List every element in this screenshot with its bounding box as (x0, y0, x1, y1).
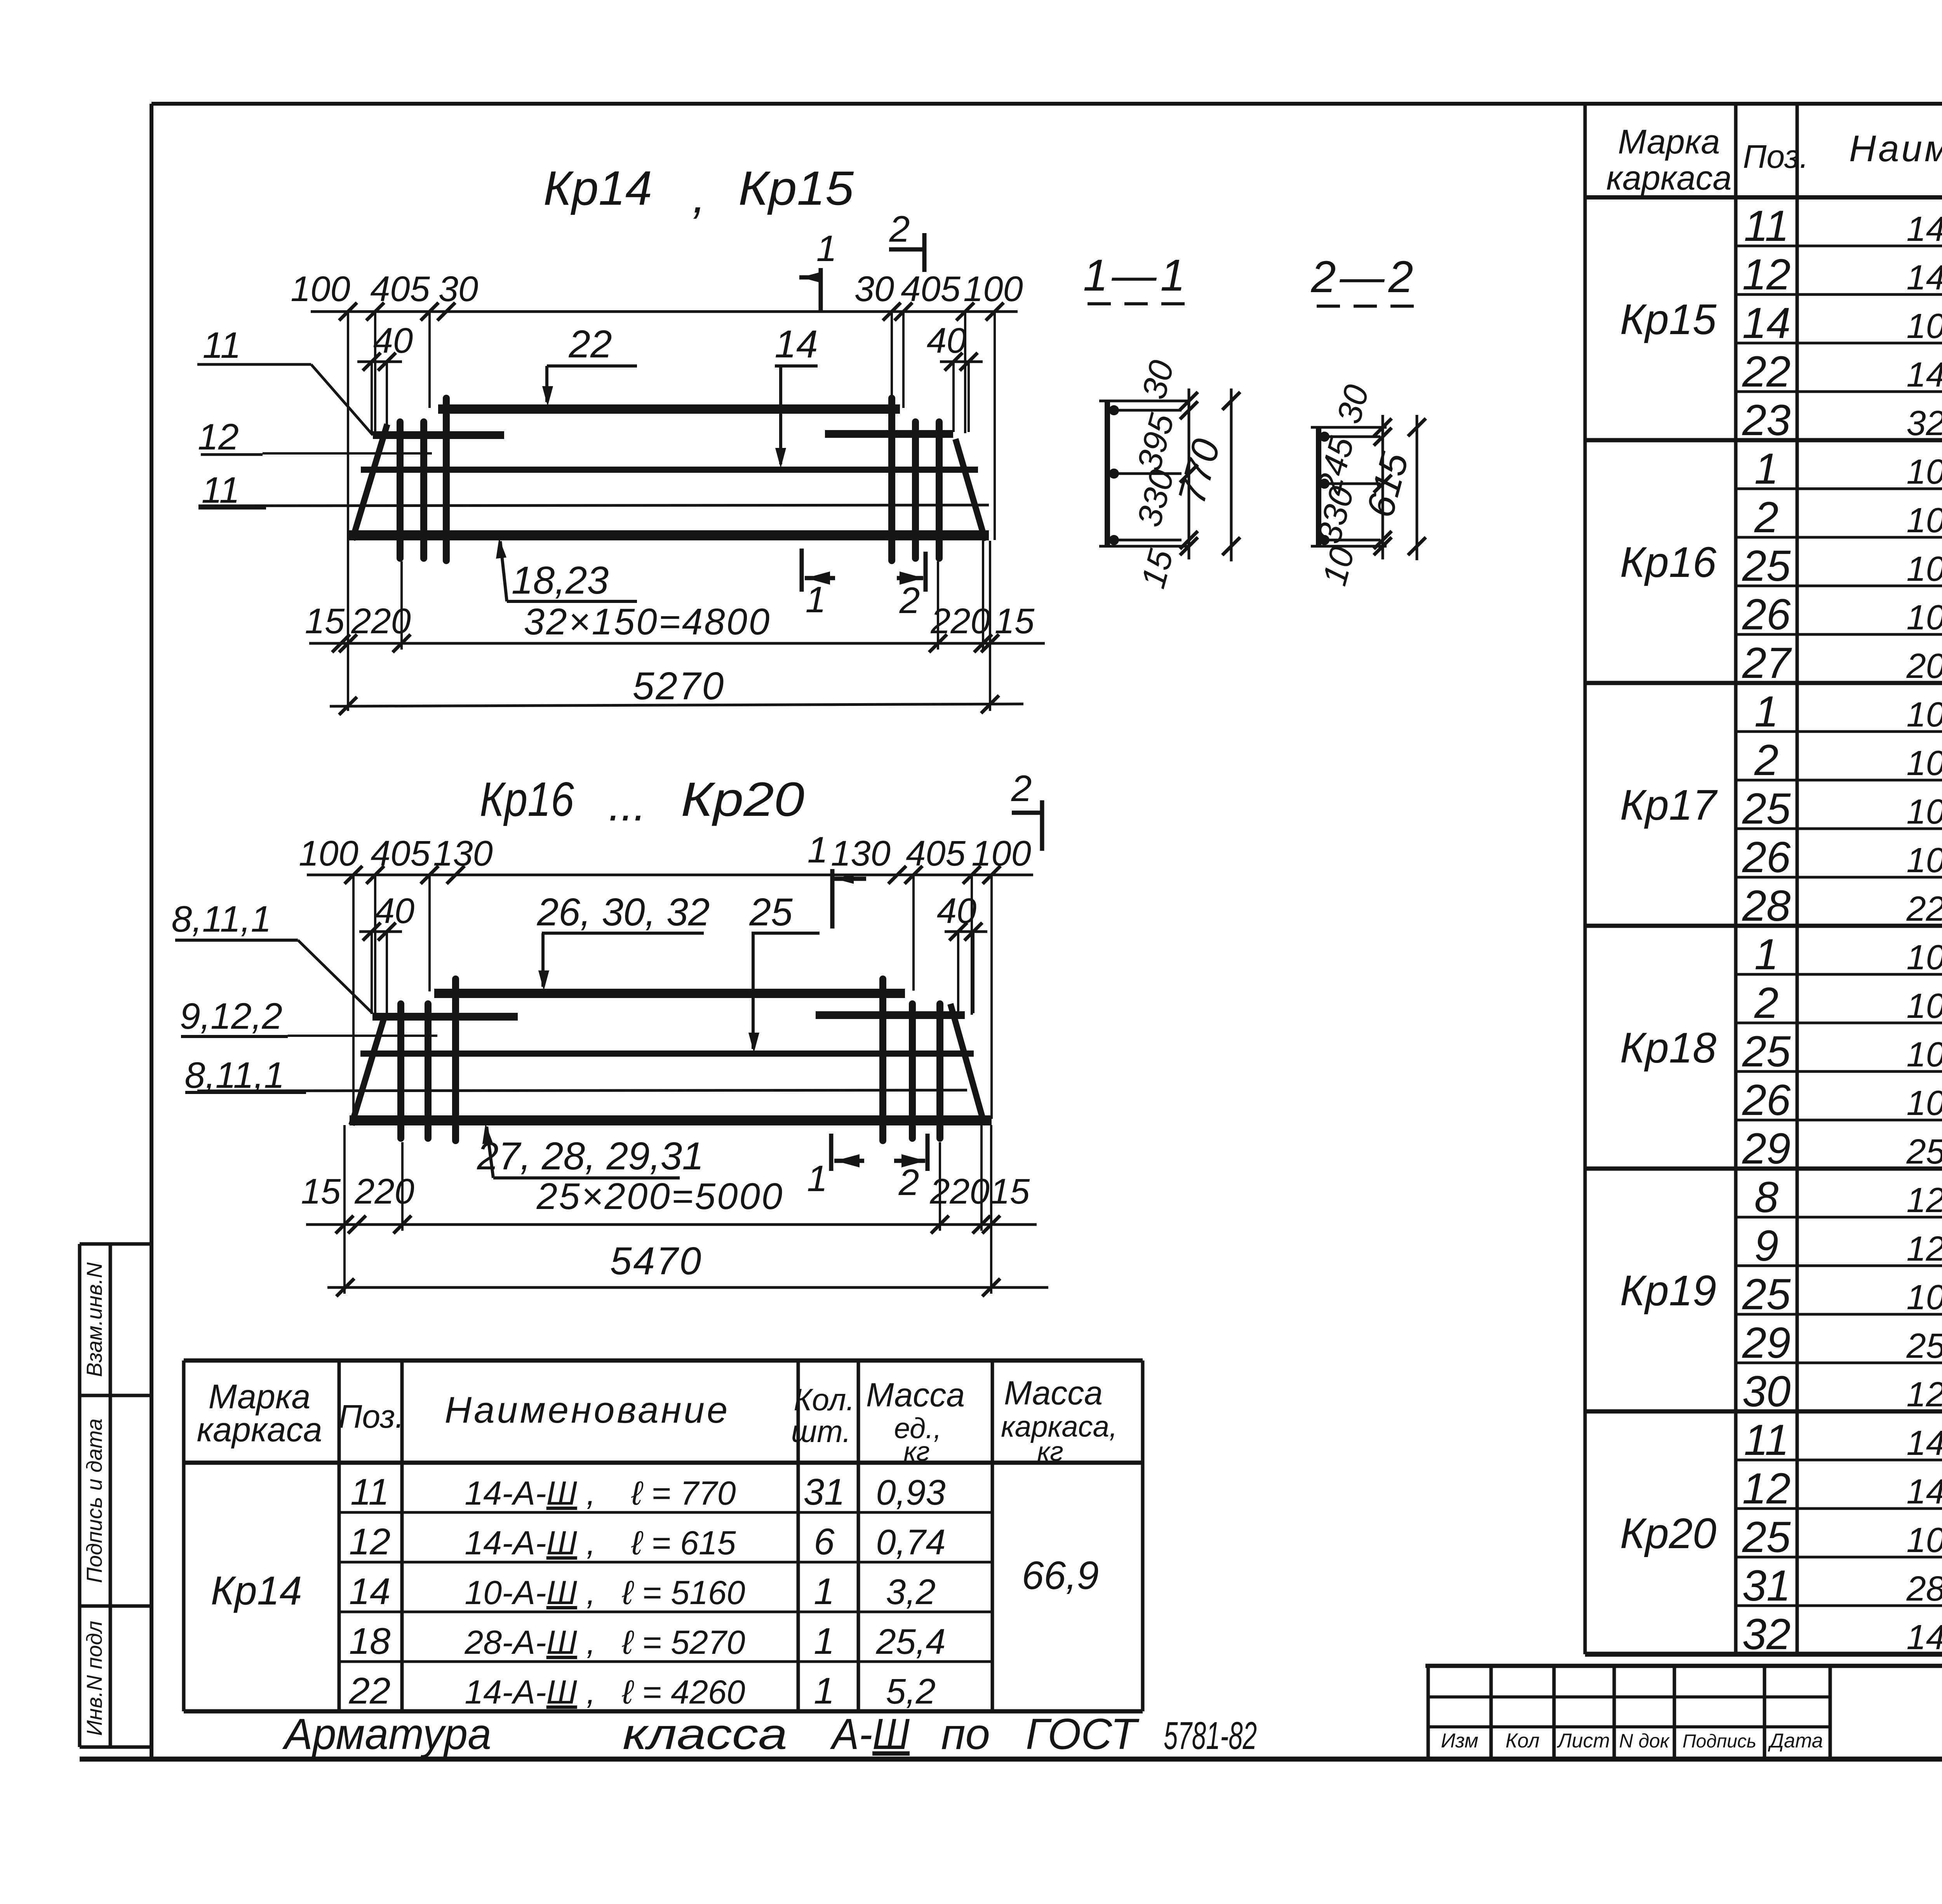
svg-text:11: 11 (203, 325, 241, 366)
svg-text:Кр19: Кр19 (1620, 1267, 1716, 1315)
svg-text:12: 12 (349, 1521, 391, 1563)
svg-text:40: 40 (373, 321, 413, 361)
d2 right end slant (950, 1004, 984, 1124)
svg-text:22: 22 (568, 322, 612, 366)
d1 dim line 5270 (330, 704, 1023, 706)
svg-text:1: 1 (806, 579, 826, 620)
d2 top dimension line (307, 874, 1033, 876)
d2 stirrups left (397, 1004, 404, 1138)
svg-text:Кр15: Кр15 (738, 162, 854, 215)
svg-text:25: 25 (1742, 1513, 1791, 1561)
svg-text:Кр16: Кр16 (480, 773, 574, 826)
d2 stirrups right (879, 979, 886, 1141)
section 1-1 stirrup outline (1105, 401, 1110, 546)
svg-text:18,23: 18,23 (512, 559, 609, 602)
svg-text:25: 25 (1742, 784, 1791, 833)
d1 right end slant (955, 439, 985, 541)
svg-text:12: 12 (1742, 1464, 1791, 1513)
svg-text:Арматура: Арматура (282, 1710, 491, 1758)
d2 bar pos25 top chord (434, 989, 905, 998)
svg-text:25-А-Ш ,: 25-А-Ш , (1906, 1327, 1942, 1366)
svg-text:26: 26 (1742, 833, 1791, 881)
svg-text:ℓ = 5160: ℓ = 5160 (621, 1574, 745, 1611)
svg-text:405: 405 (370, 269, 430, 309)
d1 dim 40 left (357, 361, 402, 363)
d1 bar pos14 middle (361, 467, 978, 473)
d2 bar middle (360, 1050, 974, 1057)
svg-text:405: 405 (906, 834, 966, 873)
svg-text:14-А-Ш ,: 14-А-Ш , (465, 1674, 595, 1711)
svg-text:28-А-Ш ,: 28-А-Ш , (1906, 1570, 1942, 1608)
svg-text:29: 29 (1742, 1124, 1791, 1173)
svg-text:10-А-Ш ,: 10-А-Ш , (465, 1574, 595, 1611)
svg-text:100: 100 (299, 834, 358, 873)
svg-text:14-А-Ш ,: 14-А-Ш , (1907, 1472, 1942, 1511)
d1 bar pos18,23 bottom chord (349, 530, 989, 540)
svg-text:10-А-Ш ,: 10-А-Ш , (1907, 1084, 1942, 1123)
svg-text:2: 2 (889, 209, 910, 250)
d2 dim line 5470 (327, 1286, 1048, 1289)
svg-text:66,9: 66,9 (1022, 1553, 1099, 1597)
svg-text:26: 26 (1742, 1076, 1791, 1124)
svg-text:2—2: 2—2 (1311, 252, 1417, 302)
svg-text:Кр20: Кр20 (681, 773, 804, 826)
d2 dim line 25x200 (306, 1223, 1037, 1226)
svg-text:14-А-Ш ,: 14-А-Ш , (465, 1524, 595, 1562)
svg-text:Кр15: Кр15 (1620, 296, 1717, 343)
svg-text:Подпись и дата: Подпись и дата (82, 1418, 106, 1583)
title block (1425, 1664, 1942, 1668)
svg-text:10-А-Ш ,: 10-А-Ш , (1907, 938, 1942, 977)
svg-text:кг: кг (1037, 1436, 1063, 1467)
svg-text:14: 14 (349, 1571, 391, 1612)
svg-text:8,11,1: 8,11,1 (184, 1055, 284, 1096)
section 1-1 dim line inner (1188, 388, 1190, 559)
svg-text:,: , (693, 169, 706, 223)
d2 bar pos27..31 bottom chord (350, 1115, 992, 1125)
svg-text:ℓ = 4260: ℓ = 4260 (621, 1674, 745, 1711)
svg-text:220: 220 (354, 1172, 414, 1211)
svg-text:25: 25 (749, 890, 793, 934)
svg-text:9: 9 (1754, 1221, 1778, 1270)
svg-text:Изм: Изм (1441, 1730, 1478, 1752)
svg-text:1: 1 (1754, 444, 1778, 493)
svg-text:ℓ = 770: ℓ = 770 (631, 1475, 736, 1512)
svg-text:по: по (941, 1710, 990, 1758)
section 2-2 dim line inner (1382, 415, 1384, 559)
svg-text:15: 15 (305, 601, 345, 641)
svg-text:1: 1 (1754, 687, 1778, 736)
svg-text:14-А-Ш ,: 14-А-Ш , (1907, 210, 1942, 249)
svg-text:18: 18 (349, 1620, 391, 1662)
svg-text:10-А-Ш ,: 10-А-Ш , (1907, 1035, 1942, 1074)
svg-text:30: 30 (854, 269, 894, 309)
svg-text:6: 6 (814, 1521, 835, 1563)
svg-text:1: 1 (814, 1670, 834, 1712)
d1 top dimension line (311, 310, 1018, 313)
svg-text:Масса: Масса (866, 1376, 965, 1414)
svg-text:Кол: Кол (1505, 1730, 1540, 1752)
svg-text:11: 11 (1744, 202, 1789, 250)
svg-text:Наименование: Наименование (1849, 128, 1942, 169)
d1 section mark 2 bottom (924, 552, 928, 592)
svg-text:2: 2 (898, 1162, 919, 1203)
svg-text:Марка: Марка (1618, 122, 1720, 161)
d1 stirrups left (397, 422, 404, 558)
svg-text:Кр20: Кр20 (1620, 1510, 1716, 1557)
svg-text:25,4: 25,4 (875, 1622, 945, 1662)
svg-text:22: 22 (349, 1670, 391, 1712)
d1 left end slant (352, 424, 387, 540)
svg-text:10-А-Ш ,: 10-А-Ш , (1907, 695, 1942, 734)
d1 bar pos22 top chord (438, 404, 900, 414)
svg-text:40: 40 (375, 891, 414, 931)
svg-text:14-А-Ш ,: 14-А-Ш , (1907, 1424, 1942, 1463)
svg-text:Кр14: Кр14 (211, 1568, 302, 1613)
svg-text:29: 29 (1742, 1319, 1791, 1367)
svg-text:23: 23 (1742, 396, 1791, 444)
svg-text:каркаса: каркаса (1606, 159, 1732, 197)
svg-text:0,93: 0,93 (876, 1473, 945, 1512)
svg-text:...: ... (609, 780, 646, 830)
svg-text:15: 15 (990, 1172, 1030, 1211)
svg-text:ℓ = 5270: ℓ = 5270 (621, 1624, 745, 1661)
d1 bar pos12 upper right (825, 430, 953, 438)
svg-text:31: 31 (804, 1471, 845, 1513)
svg-text:Лист: Лист (1557, 1730, 1610, 1752)
d1 dim line 32x150 (309, 642, 1045, 645)
svg-text:12: 12 (198, 416, 239, 458)
svg-text:32: 32 (1742, 1610, 1791, 1658)
d2 bar upper right (816, 1011, 965, 1019)
svg-text:11: 11 (1744, 1416, 1789, 1464)
svg-text:2: 2 (1754, 736, 1778, 784)
svg-text:Взам.инв.N: Взам.инв.N (82, 1262, 106, 1377)
svg-text:22: 22 (1742, 347, 1791, 396)
svg-text:10-А-Ш ,: 10-А-Ш , (1907, 598, 1942, 637)
svg-text:Поз.: Поз. (338, 1398, 404, 1435)
d2 dim 40 left (359, 930, 402, 933)
svg-text:8,11,1: 8,11,1 (171, 899, 271, 940)
svg-text:3,2: 3,2 (886, 1572, 936, 1612)
svg-text:10-А-Ш ,: 10-А-Ш , (1907, 501, 1942, 540)
d1 section mark 1 bottom (800, 549, 804, 592)
svg-text:12-А-Ш ,: 12-А-Ш , (1907, 1375, 1942, 1414)
svg-text:1: 1 (1754, 930, 1778, 979)
svg-text:27, 28, 29,31: 27, 28, 29,31 (477, 1134, 704, 1178)
svg-text:28: 28 (1742, 881, 1791, 930)
svg-text:27: 27 (1742, 639, 1792, 687)
svg-text:25×200=5000: 25×200=5000 (536, 1176, 784, 1217)
svg-text:ГОСТ: ГОСТ (1026, 1710, 1140, 1758)
d2 extension lines (352, 875, 355, 1119)
svg-text:Дата: Дата (1768, 1730, 1823, 1752)
svg-text:11: 11 (202, 470, 240, 511)
svg-text:10-А-Ш ,: 10-А-Ш , (1907, 1521, 1942, 1560)
d2 section mark 2 bottom (926, 1134, 930, 1171)
svg-text:14-А-Ш ,: 14-А-Ш , (465, 1475, 595, 1512)
svg-text:14-А-Ш ,: 14-А-Ш , (1907, 258, 1942, 297)
svg-text:Инв.N подл: Инв.N подл (82, 1621, 106, 1736)
svg-text:0,74: 0,74 (876, 1523, 945, 1562)
svg-text:1: 1 (816, 228, 837, 269)
svg-text:1: 1 (814, 1620, 834, 1662)
svg-text:Кр16: Кр16 (1620, 538, 1717, 586)
svg-text:30: 30 (439, 269, 478, 309)
svg-text:220: 220 (930, 601, 990, 641)
svg-text:10-А-Ш ,: 10-А-Ш , (1907, 550, 1942, 589)
svg-text:10-А-Ш ,: 10-А-Ш , (1907, 987, 1942, 1026)
svg-text:15: 15 (995, 601, 1035, 641)
svg-text:25: 25 (1742, 542, 1791, 590)
d2 section mark 1 bottom (829, 1134, 834, 1171)
svg-text:N док: N док (1619, 1730, 1670, 1752)
svg-text:2: 2 (899, 580, 920, 621)
d1 extension lines (347, 312, 349, 540)
svg-text:10-А-Ш ,: 10-А-Ш , (1907, 793, 1942, 831)
left auxiliary strip (78, 1244, 82, 1747)
svg-text:Кр17: Кр17 (1620, 781, 1718, 829)
svg-text:10-А-Ш ,: 10-А-Ш , (1907, 453, 1942, 491)
svg-text:5470: 5470 (610, 1239, 703, 1283)
svg-text:12: 12 (1742, 250, 1791, 299)
svg-text:26: 26 (1742, 590, 1791, 639)
d2 left end slant (352, 1015, 385, 1125)
svg-text:1: 1 (807, 829, 828, 871)
svg-text:5781-82: 5781-82 (1164, 1714, 1257, 1758)
svg-text:Поз.: Поз. (1743, 138, 1808, 175)
svg-text:12-А-Ш ,: 12-А-Ш , (1907, 1181, 1942, 1220)
svg-text:1: 1 (814, 1571, 834, 1612)
svg-text:405: 405 (901, 269, 961, 309)
svg-text:Наименование: Наименование (445, 1389, 730, 1431)
d2 dim 40 right (945, 930, 987, 933)
d2 bar pos8,11,1 thin (197, 1090, 967, 1091)
svg-text:11: 11 (350, 1471, 389, 1513)
svg-text:32×150=4800: 32×150=4800 (524, 601, 771, 643)
svg-text:31: 31 (1742, 1561, 1791, 1610)
svg-text:25-А-Ш ,: 25-А-Ш , (1906, 1132, 1942, 1171)
svg-text:Подпись: Подпись (1683, 1731, 1756, 1752)
svg-text:32-А-Ш ,: 32-А-Ш , (1907, 404, 1942, 443)
svg-text:100: 100 (291, 269, 350, 309)
svg-text:14-А-Ш ,: 14-А-Ш , (1907, 355, 1942, 394)
svg-text:2: 2 (1754, 979, 1778, 1027)
bottom-left table Кр14 (182, 1360, 186, 1711)
svg-text:8: 8 (1754, 1173, 1778, 1221)
svg-text:Масса: Масса (1004, 1374, 1103, 1412)
section 1-1 overall dim 770 (1230, 388, 1233, 561)
svg-text:26, 30, 32: 26, 30, 32 (537, 890, 710, 934)
section 2-2 bars (1319, 435, 1380, 438)
right specification table (1584, 104, 1587, 1654)
svg-text:каркаса: каркаса (197, 1410, 322, 1449)
svg-text:5270: 5270 (633, 664, 725, 708)
border frame (151, 102, 1942, 106)
svg-text:класса: класса (623, 1710, 787, 1758)
svg-text:100: 100 (963, 269, 1023, 309)
d1 stirrups right (888, 398, 895, 561)
svg-text:10-А-Ш ,: 10-А-Ш , (1907, 744, 1942, 783)
svg-text:2: 2 (1754, 493, 1778, 542)
svg-text:14: 14 (1742, 299, 1791, 347)
svg-text:2: 2 (1011, 768, 1032, 809)
svg-text:Кол.: Кол. (794, 1382, 854, 1417)
section 2-2 overall dim 615 (1416, 415, 1418, 560)
svg-text:Кр14: Кр14 (543, 162, 652, 215)
svg-text:9,12,2: 9,12,2 (180, 996, 282, 1037)
svg-text:405: 405 (371, 834, 430, 873)
svg-text:10-А-Ш ,: 10-А-Ш , (1907, 1278, 1942, 1317)
svg-text:22-А-Ш ,: 22-А-Ш , (1906, 890, 1942, 928)
svg-text:10-А-Ш ,: 10-А-Ш , (1907, 841, 1942, 880)
svg-text:5,2: 5,2 (886, 1672, 936, 1711)
svg-text:20-А-Ш ,: 20-А-Ш , (1906, 647, 1942, 686)
svg-text:ℓ = 615: ℓ = 615 (631, 1524, 736, 1562)
svg-text:40: 40 (927, 321, 966, 361)
svg-text:14-А-Ш ,: 14-А-Ш , (1907, 1618, 1942, 1657)
svg-text:А-Ш: А-Ш (830, 1710, 910, 1758)
svg-text:кг: кг (903, 1436, 930, 1467)
svg-text:30: 30 (1742, 1367, 1791, 1416)
section 2-2 stirrup outline (1316, 427, 1321, 546)
svg-text:130: 130 (831, 834, 891, 873)
svg-text:40: 40 (937, 891, 976, 931)
d1 bar pos11 thin (198, 505, 989, 506)
svg-text:1—1: 1—1 (1083, 251, 1189, 300)
svg-text:14: 14 (774, 322, 818, 366)
svg-text:12-А-Ш ,: 12-А-Ш , (1907, 1230, 1942, 1268)
svg-text:15: 15 (301, 1172, 341, 1211)
d1 dim 40 right (940, 361, 983, 363)
svg-text:25: 25 (1742, 1027, 1791, 1076)
section 1-1 bars (1107, 409, 1182, 412)
svg-text:25: 25 (1742, 1270, 1791, 1319)
svg-text:1: 1 (807, 1158, 828, 1199)
svg-text:шт.: шт. (791, 1414, 851, 1449)
svg-text:28-А-Ш ,: 28-А-Ш , (464, 1624, 595, 1661)
svg-text:10-А-Ш ,: 10-А-Ш , (1907, 307, 1942, 346)
d1 bar pos12 upper left (373, 431, 504, 439)
d2 bar pos9,12,2 upper left (372, 1013, 518, 1021)
svg-text:Кр18: Кр18 (1620, 1024, 1716, 1072)
